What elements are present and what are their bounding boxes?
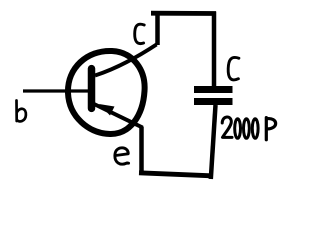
label C (capacitor reference) bbox=[228, 57, 239, 79]
value label 2000P : digit 0 (2nd) bbox=[244, 119, 250, 139]
value label 2000P : digit 0 (3rd) bbox=[252, 119, 258, 139]
base wire bbox=[23, 89, 88, 92]
label e (emitter) bbox=[115, 148, 129, 164]
value label 2000P : digit 2 bbox=[222, 117, 232, 137]
wire: right vertical lower segment (from capacitor) bbox=[211, 105, 216, 179]
emitter lead (diagonal) bbox=[94, 104, 143, 128]
wire: right vertical upper segment (to capacitor) bbox=[212, 12, 217, 87]
label b (base) bbox=[17, 101, 26, 122]
wire: top horizontal segment bbox=[151, 11, 216, 16]
label C (collector) bbox=[135, 24, 145, 43]
value label 2000P : digit 0 (1st) bbox=[235, 119, 241, 139]
emitter arrow (points toward base bar, PNP) bbox=[99, 104, 115, 116]
capacitor C top plate bbox=[194, 86, 233, 93]
capacitor C bottom plate bbox=[194, 98, 233, 105]
transistor Q1 base bar bbox=[88, 69, 96, 109]
transistor Q1 envelope (circle) bbox=[68, 51, 145, 134]
value label 2000P : letter P bbox=[266, 118, 275, 140]
wire: emitter vertical segment bbox=[139, 127, 144, 173]
collector lead (diagonal inside/outside circle) bbox=[95, 45, 157, 76]
wire: bottom horizontal segment bbox=[139, 173, 212, 176]
wire: collector vertical segment bbox=[155, 12, 160, 46]
